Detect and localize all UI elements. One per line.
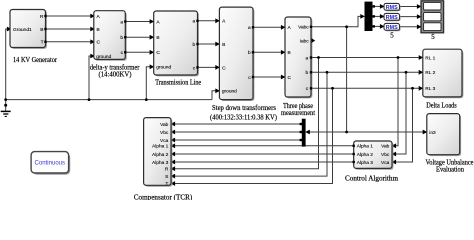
- svg-text:Continuous: Continuous: [35, 159, 66, 166]
- compensator block TCR: [144, 118, 173, 188]
- svg-text:Vca: Vca: [160, 138, 169, 144]
- wire transmission b to stepdown B: [198, 43, 220, 45]
- wire phase c to Delta Loads RL3: [311, 87, 422, 89]
- wire demux1 out3 to RMS3: [373, 25, 384, 27]
- wire delta-y b to transmission B: [125, 36, 153, 38]
- svg-text:Vca: Vca: [381, 160, 390, 166]
- node Vabc tap: [345, 25, 348, 28]
- svg-text:C: C: [222, 65, 226, 71]
- node phase a drop: [317, 56, 320, 59]
- wire demux2 out1 to compensator Vab: [172, 123, 302, 125]
- wire phase c drop to compensator T: [172, 88, 333, 183]
- demux2 for compensator voltages: [300, 119, 306, 147]
- svg-text:(14:400KV): (14:400KV): [99, 71, 133, 79]
- svg-text:Iabc: Iabc: [300, 38, 310, 44]
- node ground riser transmission: [145, 98, 148, 101]
- svg-text:Alpha 2: Alpha 2: [152, 152, 169, 158]
- arrow into delta-y ground: [90, 54, 95, 59]
- arrow into display in1: [417, 4, 422, 9]
- arrow into control algorithm Vbc: [392, 152, 397, 157]
- svg-text:Compensator (TCR): Compensator (TCR): [134, 194, 193, 200]
- arrow into measurement C: [281, 75, 286, 80]
- RMS block 2: [384, 13, 401, 21]
- wire RMS2 to display: [400, 16, 421, 18]
- svg-text:Control Algorithm: Control Algorithm: [345, 174, 399, 182]
- ARROWHEADS: [7, 4, 427, 186]
- svg-text:B: B: [156, 35, 159, 41]
- node ground port circle: [4, 104, 7, 107]
- arrow into delta-y A: [90, 14, 95, 19]
- arrow into delta-y B: [90, 27, 95, 32]
- pin Iabc out-arrow: [312, 38, 316, 43]
- svg-text:Vab: Vab: [160, 122, 169, 128]
- svg-text:T: T: [165, 181, 168, 187]
- arrow into compensator Vca: [171, 138, 176, 143]
- arrow into compensator Vab: [171, 122, 176, 127]
- arrow into compensator Alpha 3: [171, 160, 176, 165]
- wire phase a drop to compensator R: [172, 58, 319, 169]
- wire delta-y c to transmission C: [125, 51, 153, 53]
- wire phase c tap to control algorithm Vca: [393, 88, 413, 162]
- svg-text:R: R: [165, 167, 169, 173]
- node phase b drop: [326, 71, 329, 74]
- svg-text:in3: in3: [429, 130, 436, 136]
- svg-text:a: a: [248, 26, 251, 31]
- svg-text:Alpha 3: Alpha 3: [357, 160, 374, 166]
- wire demux2 out2 to compensator Vbc: [172, 131, 302, 133]
- svg-text:(400:132:33:11:0.38 KV): (400:132:33:11:0.38 KV): [210, 113, 278, 121]
- svg-text:Alpha 1: Alpha 1: [152, 144, 169, 150]
- wire demux2 out3 to compensator Vca: [172, 139, 302, 141]
- evaluation block Voltage Unbalance: [427, 114, 461, 157]
- wire demux1 out2 to RMS2: [373, 15, 384, 17]
- svg-text:5: 5: [431, 33, 435, 41]
- svg-text:T: T: [41, 40, 44, 46]
- svg-text:RMS: RMS: [386, 15, 398, 21]
- arrow into VUE in3: [423, 130, 428, 135]
- svg-text:C: C: [288, 75, 292, 81]
- arrow into transmission A: [150, 19, 155, 24]
- arrow into control algorithm Vab: [392, 143, 397, 148]
- wire Vabc to demux1: [311, 16, 364, 26]
- demux for RMS: [365, 2, 376, 31]
- wire RMS1 to display: [400, 6, 421, 8]
- svg-text:Transmission Line: Transmission Line: [155, 79, 201, 87]
- svg-text:Alpha 3: Alpha 3: [152, 160, 169, 166]
- svg-text:a: a: [193, 20, 196, 25]
- node phase b CA tap: [405, 71, 408, 74]
- svg-text:b: b: [306, 70, 309, 76]
- wire control algorithm Alpha 1 to compensator: [172, 145, 354, 147]
- arrow into Delta Loads RL2: [419, 70, 424, 75]
- svg-text:measurement: measurement: [281, 109, 315, 117]
- svg-text:RL 2: RL 2: [425, 70, 435, 76]
- arrow into compensator Alpha 1: [171, 143, 176, 148]
- RMS block 3: [384, 23, 401, 31]
- transformer block delta-y: [94, 11, 127, 61]
- wire stepdown c to measurement C: [253, 76, 285, 78]
- wire control algorithm Alpha 2 to compensator: [172, 153, 354, 155]
- arrow into stepdown B: [215, 42, 220, 47]
- svg-text:ground: ground: [222, 89, 237, 95]
- arrow into RMS3: [380, 24, 385, 29]
- svg-text:a: a: [120, 20, 123, 25]
- svg-text:B: B: [40, 27, 43, 33]
- arrow into control algorithm Vca: [392, 160, 397, 165]
- svg-text:R: R: [40, 14, 44, 20]
- svg-text:C: C: [97, 40, 101, 46]
- wire transmission c to stepdown C: [198, 66, 220, 68]
- arrow into compensator S: [171, 174, 176, 179]
- wire transmission a to stepdown A: [198, 20, 220, 22]
- arrow into display in3: [417, 24, 422, 29]
- svg-text:ground: ground: [156, 65, 171, 71]
- arrow into compensator T: [171, 181, 176, 186]
- svg-text:5: 5: [390, 31, 394, 39]
- svg-text:S: S: [165, 174, 168, 180]
- wire stepdown b to measurement B: [253, 51, 285, 53]
- svg-text:RL 3: RL 3: [425, 86, 435, 92]
- svg-text:b: b: [193, 42, 196, 48]
- arrow into demux2: [305, 130, 310, 135]
- arrow into measurement A: [281, 25, 286, 30]
- wire ground riser to transmission ground: [146, 67, 152, 100]
- svg-text:Evaluation: Evaluation: [436, 166, 464, 174]
- arrow into demux1: [360, 14, 365, 19]
- svg-text:Alpha 1: Alpha 1: [357, 144, 374, 150]
- measurement block Three phase: [285, 17, 315, 98]
- wire phase b to Delta Loads RL2: [311, 71, 422, 73]
- arrow into transmission ground: [150, 64, 155, 69]
- arrow into compensator Vbc: [171, 130, 176, 135]
- arrow into stepdown C: [215, 65, 220, 70]
- arrow into delta-y C: [90, 39, 95, 44]
- arrow into transmission C: [150, 50, 155, 55]
- svg-text:Ground1: Ground1: [13, 27, 32, 33]
- svg-text:Alpha 2: Alpha 2: [357, 152, 374, 158]
- wire phase a tap to control algorithm Vab: [393, 58, 398, 146]
- node phase a CA tap: [397, 56, 400, 59]
- arrow into Delta Loads RL1: [419, 55, 424, 60]
- arrow into stepdown A: [215, 18, 220, 23]
- svg-text:B: B: [222, 42, 225, 48]
- arrow into compensator R: [171, 166, 176, 171]
- svg-text:14 KV Generator: 14 KV Generator: [13, 56, 58, 64]
- wire phase b drop to compensator S: [172, 72, 327, 176]
- svg-text:ground: ground: [96, 54, 111, 60]
- svg-text:B: B: [288, 50, 291, 56]
- wire demux1 out1 to RMS1: [373, 5, 384, 7]
- svg-text:RL 1: RL 1: [425, 55, 435, 61]
- stepdown transformers block: [219, 7, 254, 101]
- node ground riser delta-y: [88, 98, 91, 101]
- transmission line block: [154, 11, 199, 76]
- arrow into measurement B: [281, 50, 286, 55]
- wire control algorithm Alpha 3 to compensator: [172, 161, 354, 163]
- wire Vabc to demux2 and to VUE in3: [307, 131, 426, 133]
- arrow into RMS2: [380, 14, 385, 19]
- svg-text:C: C: [156, 50, 160, 56]
- generator block 14 KV Generator: [10, 10, 47, 49]
- svg-text:b: b: [248, 50, 251, 56]
- wire stepdown a to measurement A: [253, 26, 285, 28]
- wire generator B to delta-y B: [46, 28, 95, 30]
- node phase c drop: [331, 87, 334, 90]
- svg-text:RMS: RMS: [386, 25, 398, 31]
- svg-text:Delta Loads: Delta Loads: [426, 101, 457, 109]
- svg-text:Vabc: Vabc: [298, 25, 309, 31]
- svg-text:a: a: [306, 56, 309, 61]
- wire generator Ground1 to ground node: [6, 29, 11, 111]
- controller block Control Algorithm: [353, 141, 394, 170]
- arrow into transmission B: [150, 35, 155, 40]
- arrow into compensator Alpha 2: [171, 152, 176, 157]
- wire generator T to delta-y C: [46, 41, 95, 43]
- load block Delta Loads: [423, 49, 464, 98]
- svg-text:Vbc: Vbc: [381, 152, 390, 158]
- arrow into stepdown ground: [215, 88, 220, 93]
- svg-text:Vab: Vab: [381, 144, 390, 150]
- wire generator R to delta-y A: [46, 15, 95, 17]
- ground: [1, 111, 11, 116]
- powergui block Continuous: [31, 152, 70, 175]
- node ground bus left: [4, 98, 7, 101]
- svg-text:Vbc: Vbc: [160, 130, 169, 136]
- arrow into generator Ground1: [7, 27, 12, 32]
- svg-text:RMS: RMS: [386, 5, 398, 11]
- arrow into Delta Loads RL3: [419, 86, 424, 91]
- wire ground bus: [6, 99, 212, 101]
- display block: [421, 1, 444, 33]
- node phase c CA tap: [411, 87, 414, 90]
- wire delta-y a to transmission A: [125, 21, 153, 23]
- wire phase a to Delta Loads RL1: [311, 57, 422, 59]
- arrow into display in2: [417, 14, 422, 19]
- node Vabc lower tee: [345, 131, 348, 134]
- arrow into RMS1: [380, 4, 385, 9]
- wire ground riser to stepdown ground: [212, 91, 218, 100]
- wire Vabc vertical drop: [346, 27, 348, 132]
- svg-text:Step down transformers: Step down transformers: [212, 104, 276, 112]
- wire RMS3 to display: [400, 26, 421, 28]
- RMS block 1: [384, 3, 401, 11]
- svg-text:b: b: [120, 35, 123, 41]
- wire ground riser to delta-y ground: [89, 56, 93, 100]
- wire phase b tap to control algorithm Vbc: [393, 72, 406, 154]
- svg-text:B: B: [97, 27, 100, 33]
